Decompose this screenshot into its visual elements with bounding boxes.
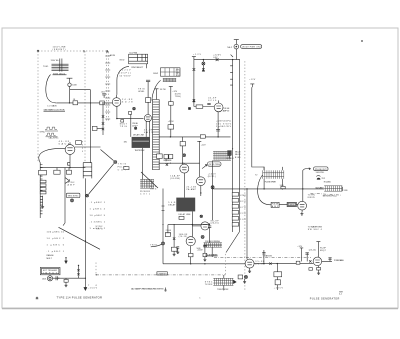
test point TP8 bbox=[150, 242, 164, 264]
row box+jack bbox=[238, 275, 247, 283]
resistor R46 bbox=[168, 121, 175, 129]
svg-text:10 µSEC 2: 10 µSEC 2 bbox=[47, 238, 65, 240]
svg-text:1 µSEC 2: 1 µSEC 2 bbox=[90, 209, 106, 211]
label rows takeoff bbox=[208, 173, 217, 178]
resistor bank RB bbox=[39, 170, 47, 194]
rate table bbox=[90, 202, 106, 230]
label V84 bbox=[211, 220, 220, 224]
svg-text:(DCPL): (DCPL) bbox=[208, 176, 216, 178]
svg-text:+12V: +12V bbox=[297, 246, 302, 248]
label TO PIN bbox=[308, 195, 316, 199]
pickoff boxes bbox=[164, 155, 173, 166]
pickoff coil L1 bbox=[140, 179, 154, 195]
svg-text:DELAY: DELAY bbox=[168, 203, 176, 206]
svg-text:.1 µSEC 1: .1 µSEC 1 bbox=[47, 251, 65, 253]
label A12B bbox=[110, 54, 116, 57]
title right bbox=[310, 292, 344, 301]
delay line DL1 bbox=[124, 134, 151, 153]
resistor R94 bbox=[309, 260, 311, 262]
svg-text:1K 2W: 1K 2W bbox=[160, 89, 166, 91]
svg-text:PULSE XFMR: PULSE XFMR bbox=[265, 182, 277, 184]
sync takeoff coil L3 bbox=[205, 275, 236, 291]
svg-text:(900V PWR ON): (900V PWR ON) bbox=[242, 47, 261, 49]
label rows S2 right bbox=[176, 70, 181, 77]
resistor R604 bbox=[77, 265, 79, 279]
wire diagonal 2 bbox=[141, 172, 158, 188]
svg-text:(24-15): (24-15) bbox=[309, 249, 316, 251]
label V45 bbox=[59, 141, 70, 145]
wire heater bus bbox=[57, 102, 95, 104]
svg-text:-150V: -150V bbox=[88, 287, 98, 289]
label AC-DC bbox=[43, 66, 49, 68]
wire cathode bbox=[117, 106, 144, 118]
svg-text:+225V: +225V bbox=[274, 288, 284, 290]
svg-text:6BQ7: 6BQ7 bbox=[320, 250, 327, 252]
wire top rail bbox=[194, 59, 236, 61]
label dlyd trig bbox=[175, 94, 182, 99]
svg-text:+225V: +225V bbox=[120, 70, 132, 72]
wire grid arc bbox=[39, 148, 65, 162]
test point TP9 bbox=[202, 60, 205, 72]
label +100V bbox=[197, 249, 204, 251]
resistor R18 bbox=[92, 126, 103, 130]
ground bbox=[41, 196, 44, 208]
chassis dash right bbox=[310, 193, 342, 195]
attenuator pad bbox=[280, 185, 285, 189]
svg-text:1 µSEC 5: 1 µSEC 5 bbox=[47, 245, 65, 247]
svg-text:1K: 1K bbox=[176, 75, 181, 77]
label pickoff bbox=[164, 160, 173, 162]
tube V24 bbox=[112, 95, 121, 107]
dotted stub bbox=[82, 141, 84, 153]
svg-text:TYPE 114 PULSE GENERATOR: TYPE 114 PULSE GENERATOR bbox=[57, 296, 103, 300]
svg-text:+12V: +12V bbox=[193, 54, 202, 56]
label V14C bbox=[179, 234, 188, 238]
svg-text:TEKTRONIX: TEKTRONIX bbox=[135, 150, 146, 152]
connector J601 bbox=[42, 276, 53, 281]
svg-text:(DLYD TRIG): (DLYD TRIG) bbox=[209, 164, 221, 166]
supply +225V d bbox=[316, 242, 326, 258]
label 115V LINE (FRONT) bbox=[53, 47, 67, 52]
svg-text:47K: 47K bbox=[176, 70, 181, 72]
svg-text:DLY PICKOFF: DLY PICKOFF bbox=[164, 160, 173, 162]
svg-text:A12B: A12B bbox=[110, 54, 116, 57]
label box PWR ON bbox=[241, 45, 262, 49]
chassis dash-dot bottom bbox=[96, 274, 225, 276]
heater line bbox=[230, 59, 233, 232]
label box SYNC OUT bbox=[66, 193, 80, 197]
svg-text:PA AMP: PA AMP bbox=[186, 188, 196, 191]
switch SW601 bbox=[40, 163, 42, 219]
svg-text:TKOFF: TKOFF bbox=[205, 284, 213, 286]
switch wafer SW2 bbox=[153, 100, 160, 171]
svg-text:SYNC: SYNC bbox=[40, 132, 46, 134]
potentiometer R602 bbox=[67, 78, 78, 103]
wire arc from transformer bbox=[46, 75, 57, 103]
svg-text:(FRONT): (FRONT) bbox=[53, 49, 66, 51]
wire wafer feed bbox=[150, 186, 165, 242]
label SYNC TRIG bbox=[96, 226, 104, 231]
tube V45 bbox=[65, 142, 75, 156]
svg-text:47K: 47K bbox=[240, 207, 246, 209]
wire rail b bbox=[236, 60, 239, 232]
wire V45B cathode bbox=[217, 112, 219, 137]
tube V14C bbox=[186, 237, 195, 246]
svg-text:TRIG: TRIG bbox=[120, 126, 127, 128]
tube V14A bbox=[180, 164, 189, 173]
label TO WAVEFORM bbox=[308, 225, 323, 230]
svg-text:AMP: AMP bbox=[68, 184, 76, 187]
wire trigger bbox=[53, 277, 86, 279]
note waveforms bbox=[131, 288, 166, 292]
supply +12V stub bbox=[249, 79, 256, 87]
value rows bbox=[216, 120, 232, 128]
switch wafer SW1B bbox=[83, 163, 92, 179]
wire stage top bus bbox=[168, 211, 210, 236]
svg-text:6CL6: 6CL6 bbox=[208, 100, 217, 102]
waveform sketch bbox=[40, 127, 60, 140]
delay line DL2 bbox=[168, 198, 195, 216]
resistor R33 bbox=[138, 88, 151, 102]
capacitor C33 bbox=[146, 80, 150, 97]
wire pulse out riser bbox=[303, 168, 311, 202]
supply stub c bbox=[297, 246, 303, 262]
svg-text:10K: 10K bbox=[176, 72, 181, 74]
wire takeoff bbox=[212, 160, 214, 220]
svg-text:AMP V2: AMP V2 bbox=[223, 109, 230, 112]
capacitor C318 bbox=[279, 202, 298, 206]
svg-text:100 µSEC 10: 100 µSEC 10 bbox=[47, 232, 65, 234]
tube V14B bbox=[196, 177, 205, 186]
resistor R47 bbox=[180, 142, 185, 146]
svg-text:50 V/DIV: 50 V/DIV bbox=[120, 76, 132, 78]
resistor R72 bbox=[213, 54, 222, 61]
page speck bbox=[361, 40, 363, 42]
capacitor C66 bbox=[208, 223, 211, 242]
svg-text:100K: 100K bbox=[72, 85, 77, 87]
resistor R97 bbox=[309, 268, 313, 271]
svg-text:50-PRM: 50-PRM bbox=[129, 52, 137, 54]
resistor box R31 bbox=[157, 154, 163, 159]
svg-text:CHASSIS: CHASSIS bbox=[158, 272, 168, 275]
supply +12V bbox=[169, 86, 178, 136]
wire arc to amp bbox=[258, 175, 271, 205]
capacitor stub bbox=[305, 249, 316, 261]
wire branch bbox=[70, 90, 91, 163]
resistor R44 bbox=[200, 135, 205, 138]
wire plate bus bbox=[159, 136, 230, 138]
svg-text:RG-58/U: RG-58/U bbox=[324, 181, 332, 183]
relay box K1 bbox=[120, 52, 148, 69]
title left bbox=[57, 296, 103, 300]
svg-text:SEE NOTE 2 PG 4-1: SEE NOTE 2 PG 4-1 bbox=[323, 196, 338, 198]
capacitor C31 bbox=[155, 89, 166, 100]
svg-text:TO DLYD SYNC: TO DLYD SYNC bbox=[217, 289, 229, 291]
resistor R28 bbox=[54, 168, 60, 175]
out wire right bbox=[322, 257, 345, 262]
dashed chassis line left bbox=[37, 51, 39, 162]
test point TP5 bbox=[134, 127, 136, 129]
svg-text:10 µSEC 5: 10 µSEC 5 bbox=[90, 215, 106, 217]
svg-text:RANGE: RANGE bbox=[47, 254, 55, 257]
tube V85 bbox=[298, 201, 307, 210]
svg-text:NE-23: NE-23 bbox=[235, 154, 241, 156]
capacitor C75 bbox=[207, 103, 210, 104]
svg-text:8 OF V5: 8 OF V5 bbox=[308, 197, 316, 199]
label rows amp bbox=[223, 108, 230, 113]
label 50-PRM bbox=[51, 60, 61, 62]
tube V45B bbox=[214, 100, 223, 111]
test point TP7 bbox=[200, 215, 203, 218]
wire block1 down bbox=[142, 148, 144, 180]
svg-text:50Ω PNL: 50Ω PNL bbox=[316, 172, 325, 174]
ground V84 bbox=[201, 235, 204, 238]
coax cable bbox=[315, 186, 348, 192]
pulse transformer T2 bbox=[255, 167, 284, 189]
arrow pin bbox=[65, 257, 68, 264]
label RG58 bbox=[324, 181, 332, 183]
resistor R45 bbox=[169, 102, 174, 106]
tube V95 bbox=[245, 259, 254, 268]
svg-text:TRIG: TRIG bbox=[150, 245, 157, 247]
supply +12V b bbox=[197, 141, 206, 177]
svg-text:DELAY LINE: DELAY LINE bbox=[179, 213, 192, 216]
svg-text:+225V (DCPL): +225V (DCPL) bbox=[216, 120, 231, 122]
resistor R14 bbox=[120, 120, 128, 128]
svg-text:SYNC SELECT: SYNC SELECT bbox=[131, 67, 144, 69]
resistor chain R61 bbox=[171, 225, 177, 256]
svg-text:93Ω: 93Ω bbox=[344, 190, 348, 192]
svg-text:+225V: +225V bbox=[213, 54, 222, 56]
svg-text:22K: 22K bbox=[240, 213, 246, 215]
wire V14A cathode bbox=[183, 173, 185, 198]
divider chain bbox=[274, 263, 284, 290]
svg-text:50Ω CABLE: 50Ω CABLE bbox=[315, 187, 324, 190]
svg-text:82K: 82K bbox=[240, 201, 246, 203]
resistor R36 bbox=[129, 111, 139, 136]
capacitor C76 bbox=[216, 130, 220, 131]
supply +12V rail bbox=[192, 54, 202, 106]
capacitor C601 bbox=[56, 276, 59, 280]
test point TP10 bbox=[211, 186, 214, 189]
wire output bus low bbox=[163, 263, 245, 265]
svg-text:1KHZ: 1KHZ bbox=[153, 73, 159, 75]
svg-text:+12V: +12V bbox=[172, 91, 177, 93]
junction TP3 bbox=[86, 194, 89, 197]
label TRIGGER TAKEOFF bbox=[263, 255, 273, 258]
svg-text:(DCPL): (DCPL) bbox=[120, 73, 131, 75]
label note bbox=[323, 196, 338, 198]
transistor Q33 bbox=[65, 168, 75, 223]
wire bbox=[147, 103, 149, 115]
label V135 bbox=[144, 129, 153, 133]
wire grid feed bbox=[182, 137, 184, 164]
dashed chassis right bbox=[244, 61, 246, 290]
svg-text:+12V: +12V bbox=[249, 79, 256, 81]
svg-text:(PULSE OUT): (PULSE OUT) bbox=[315, 169, 327, 171]
svg-text:(24-15B): (24-15B) bbox=[170, 178, 180, 180]
svg-text:DELAY LINE: DELAY LINE bbox=[133, 134, 145, 137]
resistor R12 bbox=[95, 101, 112, 105]
svg-text:TRIG: TRIG bbox=[150, 188, 157, 190]
output wafer SW3 bbox=[213, 151, 231, 160]
arrow to -150V bbox=[84, 285, 98, 291]
svg-text:LEVEL: LEVEL bbox=[138, 91, 145, 93]
wire to Q84 bbox=[192, 225, 201, 227]
capacitor C63 bbox=[176, 247, 179, 254]
chassis dash-dot mid bbox=[214, 257, 311, 259]
svg-text:MULT: MULT bbox=[47, 258, 53, 260]
resistor R91 bbox=[269, 262, 271, 264]
svg-text:SW SEC 4: SW SEC 4 bbox=[308, 229, 323, 231]
wire stage bus bbox=[159, 162, 199, 164]
dash stub bbox=[95, 263, 97, 275]
label rows bank bbox=[240, 195, 246, 221]
svg-text:100 V/DIV: 100 V/DIV bbox=[216, 123, 232, 125]
wire +12V feed bbox=[252, 87, 264, 170]
svg-text:TO 93Ω CABLE: TO 93Ω CABLE bbox=[334, 259, 345, 262]
resistor column bank bbox=[232, 193, 238, 227]
label rows stage bbox=[166, 230, 172, 235]
svg-text:CHASSIS: CHASSIS bbox=[263, 255, 273, 258]
svg-text:50Ω: 50Ω bbox=[197, 248, 201, 250]
label C318 bbox=[288, 205, 295, 207]
dash connector bbox=[224, 254, 226, 276]
label rows neon bbox=[235, 151, 241, 158]
range table bbox=[47, 232, 65, 260]
resistor R71 bbox=[193, 68, 196, 71]
cable W1 bbox=[105, 50, 110, 122]
shaper coil L2 bbox=[197, 241, 222, 257]
svg-text:ALL WAVEFORMS MEASURED WITH N: ALL WAVEFORMS MEASURED WITH N bbox=[131, 288, 163, 291]
resistor R29 bbox=[66, 168, 71, 175]
wire bus bbox=[40, 167, 85, 169]
ground V95 bbox=[248, 268, 251, 273]
test point TP1 bbox=[89, 150, 117, 195]
svg-text:MOD: MOD bbox=[120, 59, 125, 61]
svg-text:(24-15): (24-15) bbox=[179, 236, 188, 238]
wire out stage bbox=[254, 263, 313, 265]
divider chain R16 bbox=[102, 102, 104, 135]
page mark bbox=[199, 297, 201, 299]
dashed chassis line mid bbox=[84, 51, 86, 162]
wire to delay line bbox=[146, 121, 149, 137]
svg-text:470K: 470K bbox=[240, 195, 246, 197]
tunnel diode TD2 bbox=[316, 176, 326, 181]
svg-text:TRIG: TRIG bbox=[96, 229, 103, 231]
tube V96 bbox=[313, 257, 322, 266]
diode D71 bbox=[193, 99, 196, 101]
fuse mark bbox=[231, 55, 233, 57]
svg-text:C318 150: C318 150 bbox=[288, 205, 295, 207]
label V14B bbox=[186, 187, 196, 191]
svg-text:10K: 10K bbox=[240, 219, 246, 221]
wire -150V bus bbox=[84, 178, 86, 289]
dashed chassis line top bbox=[37, 50, 108, 52]
wire plate arc bbox=[117, 66, 129, 94]
tube V84 bbox=[201, 222, 209, 230]
svg-text:LO GAIN: LO GAIN bbox=[48, 105, 57, 108]
test point TP11 bbox=[188, 107, 190, 109]
wire V95 feed bbox=[246, 189, 248, 259]
svg-text:+225V: +225V bbox=[168, 121, 175, 123]
resistor R22 bbox=[75, 141, 101, 147]
label trig pickoff bbox=[118, 164, 127, 172]
ground V96 bbox=[317, 266, 321, 275]
label V24 bbox=[122, 99, 133, 103]
wire arc S2 bbox=[152, 80, 161, 100]
wire V14B cathode bbox=[200, 186, 202, 196]
resistor R601 bbox=[73, 99, 78, 105]
label +225V bbox=[120, 70, 132, 78]
capacitor C65 bbox=[203, 243, 207, 261]
svg-text:(24-15): (24-15) bbox=[211, 223, 219, 225]
relay K2 bbox=[226, 150, 234, 160]
label LO FREQ bbox=[44, 105, 66, 112]
svg-text:CAL-SYNC: CAL-SYNC bbox=[49, 137, 60, 140]
resistor box R93 bbox=[296, 261, 300, 264]
resistor R26 bbox=[124, 167, 129, 170]
svg-text:+12V: +12V bbox=[201, 144, 206, 146]
svg-text:PULSE FORMING: PULSE FORMING bbox=[205, 241, 220, 243]
wire cathode V45 bbox=[68, 156, 70, 167]
capacitor C12 bbox=[101, 92, 106, 98]
tube V135 bbox=[144, 115, 151, 122]
svg-text:5 µSEC/DIV: 5 µSEC/DIV bbox=[216, 126, 232, 128]
svg-text:50Ω: 50Ω bbox=[280, 185, 284, 187]
star mark bbox=[36, 297, 39, 300]
svg-text:.1 µSEC 1: .1 µSEC 1 bbox=[90, 202, 106, 204]
transformer T601 bbox=[52, 59, 69, 72]
svg-text:.005: .005 bbox=[166, 232, 172, 234]
resistor R62 bbox=[165, 225, 170, 237]
svg-text:PULSE GENERATOR: PULSE GENERATOR bbox=[310, 298, 340, 301]
wire diagonal col bbox=[226, 232, 239, 253]
svg-text:TRIG): TRIG) bbox=[175, 96, 181, 98]
test point TP2 bbox=[71, 199, 74, 202]
label box DLYD TRIG bbox=[202, 162, 221, 169]
label V14A bbox=[170, 175, 180, 180]
resistor R52 bbox=[179, 216, 184, 219]
ground V85 bbox=[300, 210, 303, 215]
test point TP4 bbox=[133, 107, 136, 110]
label box PULSE OUT bbox=[314, 167, 328, 174]
test point TP6 bbox=[183, 154, 186, 157]
svg-text:AMP: AMP bbox=[272, 205, 279, 208]
svg-text:T601: T601 bbox=[43, 66, 49, 68]
svg-text:6.3V: 6.3V bbox=[213, 57, 218, 59]
stub components bbox=[262, 250, 265, 264]
wire output bus bbox=[214, 188, 325, 190]
svg-text:NE-23: NE-23 bbox=[235, 151, 241, 153]
label box DELAY GATE bbox=[157, 272, 167, 276]
label TRIG-SYNC bbox=[53, 73, 67, 75]
wire diagonal bbox=[59, 223, 101, 249]
svg-text:B160: B160 bbox=[235, 157, 241, 159]
rotary switch block S2 bbox=[153, 68, 180, 82]
label V95 bbox=[255, 261, 265, 265]
svg-text:.1 mSEC 1: .1 mSEC 1 bbox=[90, 222, 106, 224]
label V45B bbox=[208, 97, 217, 101]
resistor R603 bbox=[64, 278, 68, 287]
svg-text:TRIG SYNC: TRIG SYNC bbox=[68, 195, 80, 197]
pilot lamp B601 bbox=[227, 40, 238, 60]
resistor R75 bbox=[194, 105, 214, 108]
svg-text:115V 60~: 115V 60~ bbox=[51, 60, 61, 62]
label box TRIGGER INPUT bbox=[40, 267, 60, 274]
resistor R64 bbox=[188, 246, 193, 264]
amplifier box bbox=[271, 202, 279, 208]
